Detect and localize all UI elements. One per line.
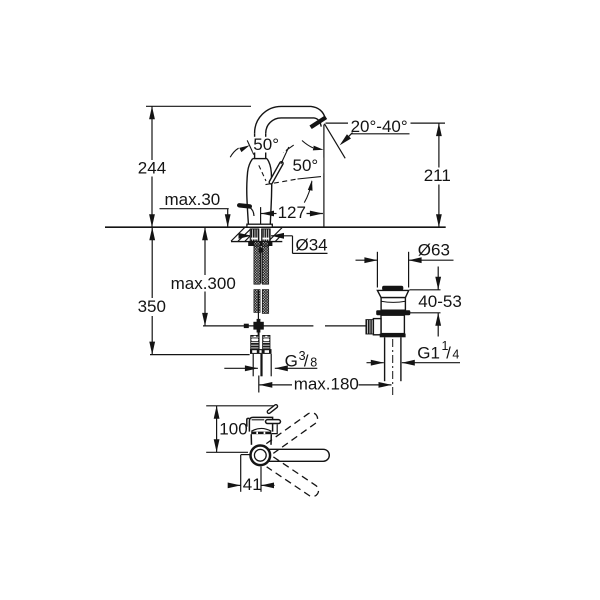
40-53 ref lines: [410, 289, 441, 291]
arc arrow 50deg-2 head: [308, 180, 315, 191]
base plate: [247, 224, 272, 227]
max300 dim line: [204, 227, 206, 275]
svg-text:Ø34: Ø34: [296, 236, 328, 255]
faucet body outline: [247, 159, 253, 225]
svg-text:100: 100: [219, 420, 247, 439]
diagonal lever stroke: [269, 406, 276, 412]
connector base plate: [250, 349, 272, 354]
pop-up rod left end cap: [244, 324, 249, 328]
244 dim line: [151, 106, 153, 160]
max30 shelf: [160, 208, 229, 210]
drain centerline: [392, 339, 394, 397]
hoses: [253, 354, 271, 376]
127 dim: [261, 213, 277, 215]
rod segment to hose plate: [258, 330, 260, 350]
washer under deck: [248, 242, 272, 246]
dome arc: [251, 428, 271, 431]
top extension line: [146, 105, 251, 107]
arrow 100 top: [214, 406, 220, 419]
dashed swivel bars: [266, 410, 321, 499]
down-leg dashed then solid: [266, 179, 298, 185]
arrow 244 top: [149, 106, 155, 119]
arc arrow 50deg-1 left head: [239, 143, 251, 152]
drain knurled knob: [366, 320, 374, 334]
cartridge body: [249, 417, 272, 431]
svg-text:244: 244: [138, 159, 166, 178]
svg-text:G: G: [285, 351, 298, 370]
arrow 41 right: [261, 483, 274, 489]
drain rubber washer: [376, 310, 410, 315]
deck bottom line: [231, 241, 282, 243]
O34 dim: [239, 235, 252, 237]
svg-text:max.300: max.300: [171, 274, 236, 293]
dark band: [251, 432, 271, 435]
svg-text:4: 4: [452, 348, 459, 362]
top view: 41 dim: [240, 455, 242, 492]
pop-up vertical rod: [245, 247, 367, 326]
svg-text:/: /: [304, 352, 309, 370]
hidden up-leg dashed: [259, 165, 266, 181]
svg-text:50°: 50°: [293, 156, 319, 175]
drain upper body: [381, 298, 405, 311]
arrow 244 bottom: [149, 214, 155, 227]
drain side port: [373, 319, 381, 335]
arrow 350 bottom: [149, 342, 155, 355]
svg-text:G1: G1: [417, 344, 440, 363]
G3/8 connector nuts: [251, 335, 270, 349]
svg-text:max.30: max.30: [165, 190, 221, 209]
lever extension thin + tick: [230, 140, 321, 202]
arrow 211 top: [436, 123, 442, 136]
arrow 20-40 leader: [338, 134, 351, 147]
arrow G1 1/4 right: [402, 360, 415, 366]
O63 extensions: [376, 252, 378, 288]
lever solid: [271, 163, 282, 182]
outlet vertical extension: [323, 125, 325, 228]
arrow G1 1/4 left: [371, 360, 384, 366]
deck top line: [105, 226, 446, 228]
arrow max.30 down: [225, 214, 231, 227]
arc arrows for 50deg: [230, 148, 238, 157]
drain lower body: [381, 315, 404, 333]
arrow 41 left: [228, 483, 241, 489]
arrow 127 left: [261, 211, 274, 217]
spout tube verticals: [254, 133, 256, 158]
left rod line: [241, 454, 251, 456]
arrow 211 bottom: [436, 214, 442, 227]
211 top extension: [326, 122, 349, 124]
G1 1/4 dim: [367, 362, 384, 364]
arrowheads: [149, 106, 442, 488]
svg-text:20°-40°: 20°-40°: [351, 117, 408, 136]
hatching: [231, 228, 283, 242]
outlet face: [311, 117, 326, 127]
svg-text:/: /: [446, 345, 451, 363]
arrow O34 right: [271, 233, 284, 239]
top view: 100 extensions: [206, 405, 275, 407]
arrow 100 bottom: [214, 439, 220, 452]
locking nut under deck: [250, 229, 270, 241]
svg-text:8: 8: [310, 356, 317, 370]
arrow O63 left: [364, 257, 377, 263]
horizontal pop-up rod: [245, 325, 314, 327]
arrow 40-53 top: [435, 277, 441, 290]
spout outer curve: [255, 106, 326, 133]
svg-text:41: 41: [243, 475, 262, 494]
svg-text:Ø63: Ø63: [418, 240, 450, 259]
svg-text:211: 211: [424, 166, 451, 185]
svg-text:350: 350: [138, 297, 166, 316]
lever rod top view: [268, 419, 279, 424]
max180 dim: [259, 384, 292, 386]
lower body sides: [250, 434, 252, 445]
drain tailpipe: [384, 337, 386, 381]
arrow 350 top: [149, 227, 155, 240]
arrow O34 left: [239, 233, 252, 239]
ring: [250, 446, 270, 466]
drain plug cap: [382, 286, 403, 291]
svg-text:max.180: max.180: [294, 374, 359, 393]
pop-up rod cross fitting: [253, 322, 263, 330]
arrow G3/8 left: [245, 365, 258, 371]
G 3/8 dim: [224, 367, 258, 369]
20-40 leader: [351, 133, 410, 135]
arrow max.180 left: [259, 382, 272, 388]
text halos: [253, 137, 323, 174]
20-40 V leg: [324, 124, 345, 159]
arrow max.180 right: [379, 382, 392, 388]
rod-level extension: [203, 325, 244, 327]
drain bottom nut: [380, 334, 406, 338]
spout inner curve: [266, 118, 322, 133]
arrow max.300 bottom: [202, 313, 208, 326]
arrow O63 right: [409, 257, 422, 263]
drain flange: [377, 290, 408, 297]
arrow max.300 top: [202, 227, 208, 240]
O63 dim: [356, 259, 378, 261]
arc arrow 50deg-1 right head: [313, 146, 324, 153]
svg-text:127: 127: [278, 203, 306, 222]
350 dim line: [151, 227, 153, 298]
arrow G3/8 right: [275, 365, 288, 371]
svg-text:40-53: 40-53: [418, 292, 461, 311]
threaded studs: [254, 246, 269, 313]
solid spout bar: [268, 449, 329, 461]
svg-text:50°: 50°: [253, 135, 279, 154]
pop-up knob left of body: [239, 205, 250, 206]
upper leg thin line: [247, 140, 254, 154]
arrow 40-53 bottom: [435, 313, 441, 326]
350 bottom extension: [150, 354, 250, 356]
arrow 127 right: [310, 211, 323, 217]
joint line: [253, 158, 267, 160]
211 dim line: [438, 123, 440, 167]
